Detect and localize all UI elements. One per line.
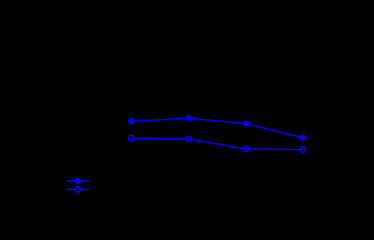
legend entry 2 open circle marker	[75, 187, 81, 193]
series 2 line (solid blue, open circle markers)	[131, 138, 302, 150]
series 2 marker Q2	[186, 136, 192, 142]
legend entry 1 line sample	[66, 180, 89, 182]
series 2 marker Q3	[243, 146, 249, 152]
series 1 line (solid blue, filled circle markers)	[131, 118, 302, 138]
legend entry 2 line sample	[66, 188, 89, 190]
series 2 marker Q4	[300, 147, 306, 153]
legend entry 1 filled circle marker	[74, 178, 80, 184]
series 1 marker P3	[243, 120, 249, 126]
series 1 marker P1	[128, 118, 134, 124]
series 2 marker Q1	[129, 135, 135, 141]
series 1 marker P4	[299, 134, 305, 140]
series 1 marker P2	[186, 115, 192, 121]
